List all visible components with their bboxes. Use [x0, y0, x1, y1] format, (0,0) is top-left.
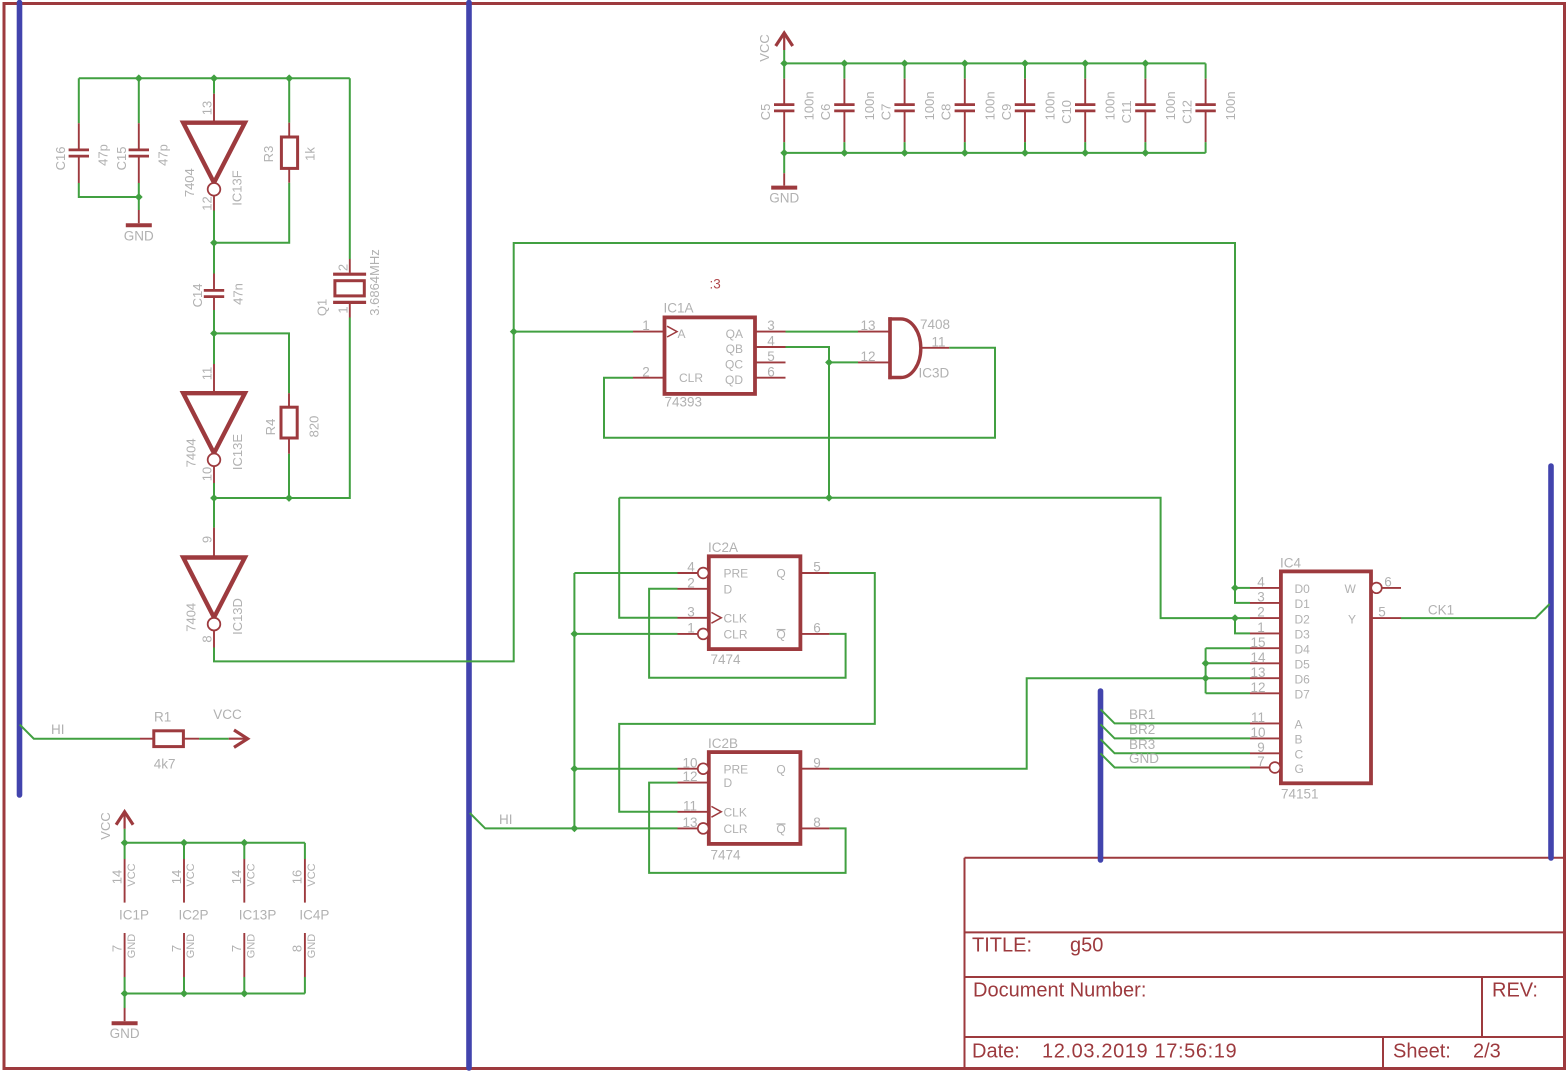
svg-text:TITLE:: TITLE: — [972, 935, 1032, 957]
svg-text:2/3: 2/3 — [1473, 1041, 1501, 1063]
svg-text:G: G — [1295, 762, 1304, 776]
svg-text:8: 8 — [200, 635, 215, 642]
svg-text:5: 5 — [813, 560, 821, 575]
svg-text:100n: 100n — [1103, 91, 1118, 120]
svg-text::3: :3 — [710, 277, 721, 292]
svg-text:Q: Q — [776, 628, 785, 642]
svg-text:6: 6 — [813, 621, 821, 636]
svg-text:7: 7 — [109, 945, 124, 952]
svg-text:D0: D0 — [1295, 582, 1311, 596]
svg-text:D4: D4 — [1295, 643, 1311, 657]
svg-text:R1: R1 — [154, 710, 171, 725]
svg-text:3.6864MHz: 3.6864MHz — [367, 249, 382, 315]
svg-text:PRE: PRE — [724, 762, 749, 776]
svg-text:C16: C16 — [53, 147, 68, 171]
svg-text:Y: Y — [1348, 612, 1356, 626]
svg-text:GND: GND — [306, 934, 318, 959]
svg-text:74151: 74151 — [1281, 787, 1319, 802]
svg-text:IC2P: IC2P — [179, 908, 209, 923]
svg-text:D6: D6 — [1295, 673, 1311, 687]
svg-text:47n: 47n — [231, 283, 246, 305]
svg-text:HI: HI — [51, 722, 65, 737]
svg-text:100n: 100n — [862, 91, 877, 120]
svg-text:IC13F: IC13F — [230, 170, 245, 205]
svg-text:D3: D3 — [1295, 628, 1311, 642]
svg-text:GND: GND — [246, 934, 258, 959]
svg-text:4k7: 4k7 — [154, 757, 176, 772]
svg-text:VCC: VCC — [185, 863, 197, 886]
svg-text:IC1A: IC1A — [664, 300, 694, 315]
svg-text:GND: GND — [185, 934, 197, 959]
svg-text:CLK: CLK — [724, 611, 747, 625]
svg-text:13: 13 — [860, 318, 875, 333]
svg-text:1: 1 — [642, 318, 650, 333]
svg-text:BR1: BR1 — [1129, 707, 1155, 722]
svg-text:HI: HI — [499, 812, 513, 827]
svg-text:VCC: VCC — [98, 812, 113, 839]
svg-text:IC13P: IC13P — [239, 908, 277, 923]
svg-text:11: 11 — [931, 334, 945, 349]
svg-text:13: 13 — [1250, 665, 1265, 680]
svg-text:7404: 7404 — [182, 168, 197, 197]
svg-text:7: 7 — [1257, 754, 1265, 769]
svg-text:IC2A: IC2A — [708, 540, 738, 555]
svg-text:C12: C12 — [1179, 100, 1194, 124]
svg-text:IC3D: IC3D — [919, 366, 950, 381]
svg-text:47p: 47p — [156, 144, 171, 166]
svg-text:4: 4 — [1257, 575, 1265, 590]
svg-text:IC13E: IC13E — [230, 434, 245, 470]
svg-text:8: 8 — [813, 815, 821, 830]
svg-text:10: 10 — [1250, 725, 1265, 740]
svg-text:CLK: CLK — [724, 805, 747, 819]
svg-text:CLR: CLR — [724, 628, 748, 642]
svg-text:D: D — [724, 776, 733, 790]
svg-text:100n: 100n — [982, 91, 997, 120]
svg-text:GND: GND — [124, 229, 154, 244]
svg-text:CK1: CK1 — [1428, 603, 1454, 618]
svg-text:13: 13 — [200, 101, 215, 115]
svg-text:74393: 74393 — [665, 395, 703, 410]
svg-text:9: 9 — [200, 536, 215, 543]
svg-text:14: 14 — [109, 870, 124, 884]
svg-text:W: W — [1345, 582, 1357, 596]
svg-text:7474: 7474 — [711, 652, 742, 667]
svg-text:100n: 100n — [922, 91, 937, 120]
svg-text:C5: C5 — [758, 104, 773, 121]
svg-text:B: B — [1295, 733, 1303, 747]
svg-text:5: 5 — [1378, 605, 1386, 620]
svg-text:C6: C6 — [818, 104, 833, 121]
svg-text:CLR: CLR — [679, 371, 703, 385]
svg-text:PRE: PRE — [724, 567, 749, 581]
svg-text:VCC: VCC — [757, 34, 772, 61]
svg-text:BR3: BR3 — [1129, 737, 1155, 752]
svg-text:5: 5 — [767, 349, 775, 364]
svg-text:IC4: IC4 — [1280, 556, 1302, 571]
svg-text:QA: QA — [726, 327, 743, 341]
svg-text:VCC: VCC — [246, 863, 258, 886]
svg-text:14: 14 — [1250, 650, 1266, 665]
svg-text:2: 2 — [642, 364, 650, 379]
svg-text:R3: R3 — [261, 146, 276, 163]
svg-text:7404: 7404 — [184, 603, 199, 632]
svg-text:7: 7 — [229, 945, 244, 952]
svg-text:7: 7 — [169, 945, 184, 952]
svg-text:7404: 7404 — [184, 438, 199, 467]
svg-text:10: 10 — [200, 467, 215, 481]
svg-text:12: 12 — [1250, 680, 1265, 695]
svg-text:C14: C14 — [190, 284, 205, 308]
svg-text:IC4P: IC4P — [299, 908, 329, 923]
svg-text:2: 2 — [687, 575, 695, 590]
svg-text:Document Number:: Document Number: — [973, 980, 1146, 1002]
svg-text:9: 9 — [1257, 740, 1265, 755]
svg-text:C11: C11 — [1119, 100, 1134, 123]
svg-text:C: C — [1295, 748, 1304, 762]
svg-text:9: 9 — [813, 755, 821, 770]
svg-text:D5: D5 — [1295, 658, 1311, 672]
svg-text:6: 6 — [1384, 575, 1392, 590]
svg-text:12.03.2019 17:56:19: 12.03.2019 17:56:19 — [1042, 1041, 1237, 1063]
svg-text:47p: 47p — [96, 144, 111, 166]
svg-text:D2: D2 — [1295, 612, 1311, 626]
svg-text:BR2: BR2 — [1129, 722, 1155, 737]
svg-text:GND: GND — [769, 191, 799, 206]
svg-text:GND: GND — [1129, 751, 1159, 766]
svg-text:100n: 100n — [1223, 91, 1238, 120]
svg-text:1k: 1k — [303, 147, 318, 161]
svg-text:15: 15 — [1250, 635, 1265, 650]
svg-text:4: 4 — [687, 560, 695, 575]
svg-text:12: 12 — [860, 349, 875, 364]
svg-text:C8: C8 — [939, 104, 954, 121]
svg-text:11: 11 — [1251, 710, 1265, 725]
svg-text:100n: 100n — [802, 91, 817, 120]
svg-text:GND: GND — [110, 1026, 140, 1041]
svg-text:Date:: Date: — [972, 1041, 1020, 1063]
svg-text:A: A — [1295, 718, 1303, 732]
svg-text:3: 3 — [687, 604, 695, 619]
svg-text:100n: 100n — [1163, 91, 1178, 120]
svg-text:C9: C9 — [999, 104, 1014, 121]
svg-text:12: 12 — [200, 196, 215, 210]
svg-text:14: 14 — [229, 870, 244, 884]
svg-text:16: 16 — [290, 870, 305, 884]
svg-text:8: 8 — [290, 945, 305, 952]
svg-text:A: A — [678, 327, 686, 341]
svg-text:QD: QD — [725, 373, 743, 387]
svg-text:VCC: VCC — [126, 863, 138, 886]
svg-text:IC13D: IC13D — [230, 598, 245, 635]
svg-text:Q1: Q1 — [315, 299, 330, 316]
svg-text:IC2B: IC2B — [708, 736, 738, 751]
svg-text:Q: Q — [776, 762, 785, 776]
svg-text:C7: C7 — [878, 104, 893, 121]
svg-text:13: 13 — [682, 815, 697, 830]
svg-text:g50: g50 — [1070, 935, 1103, 957]
svg-text:1: 1 — [687, 621, 695, 636]
svg-text:R4: R4 — [263, 419, 278, 436]
svg-text:4: 4 — [767, 334, 775, 349]
svg-text:QC: QC — [725, 358, 743, 372]
svg-text:3: 3 — [1257, 590, 1265, 605]
svg-text:11: 11 — [683, 798, 697, 813]
svg-text:1: 1 — [1257, 620, 1265, 635]
svg-text:3: 3 — [767, 318, 775, 333]
svg-text:6: 6 — [767, 364, 775, 379]
svg-text:11: 11 — [200, 367, 215, 381]
svg-text:D1: D1 — [1295, 597, 1311, 611]
svg-text:VCC: VCC — [213, 707, 242, 722]
svg-text:12: 12 — [682, 769, 697, 784]
svg-text:820: 820 — [307, 416, 322, 438]
svg-text:VCC: VCC — [306, 863, 318, 886]
svg-text:14: 14 — [169, 870, 184, 884]
svg-text:Q: Q — [776, 822, 785, 836]
svg-text:REV:: REV: — [1492, 980, 1538, 1002]
svg-text:C10: C10 — [1059, 100, 1074, 124]
svg-text:D7: D7 — [1295, 688, 1311, 702]
svg-text:7408: 7408 — [920, 317, 950, 332]
svg-text:2: 2 — [336, 264, 351, 271]
svg-text:D: D — [724, 582, 733, 596]
svg-text:2: 2 — [1257, 605, 1265, 620]
svg-text:QB: QB — [726, 342, 743, 356]
svg-text:7474: 7474 — [711, 848, 742, 863]
svg-text:1: 1 — [336, 306, 351, 313]
svg-text:10: 10 — [682, 755, 697, 770]
svg-text:GND: GND — [126, 934, 138, 959]
svg-text:Q: Q — [776, 567, 785, 581]
svg-text:100n: 100n — [1043, 91, 1058, 120]
svg-text:C15: C15 — [114, 147, 129, 171]
svg-text:IC1P: IC1P — [119, 908, 149, 923]
svg-text:Sheet:: Sheet: — [1393, 1041, 1451, 1063]
svg-text:CLR: CLR — [724, 822, 748, 836]
